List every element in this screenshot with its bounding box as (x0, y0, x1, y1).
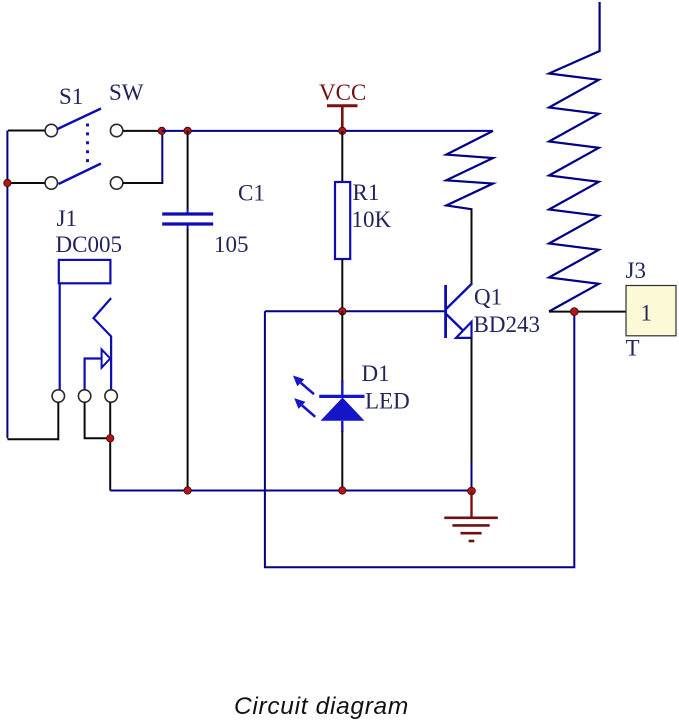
switch S1 gang link dotted line (86, 124, 89, 169)
svg-text:LED: LED (365, 389, 410, 414)
inductor L2 secondary coil zigzag (549, 2, 600, 312)
connector J1 pin2 circle (78, 390, 90, 402)
wire: base wire from loop to Q1 (265, 310, 445, 312)
wire: LED bottom lead (341, 431, 343, 491)
switch S1 lower lever (59, 164, 102, 185)
LED D1 top pin stub (341, 380, 343, 396)
svg-text:105: 105 (214, 232, 249, 257)
connector J1 pin2 lead with arrow stem (85, 359, 101, 390)
svg-text:R1: R1 (353, 180, 380, 205)
wire: SW upper-right terminal to junction (123, 130, 163, 132)
svg-text:J1: J1 (57, 206, 77, 231)
ground stem (470, 491, 472, 518)
wire: coil to Q1 collector (471, 208, 473, 284)
transistor Q1 collector diagonal (446, 284, 472, 310)
svg-text:T: T (626, 336, 640, 361)
svg-text:BD243: BD243 (474, 312, 540, 337)
svg-text:C1: C1 (238, 181, 265, 206)
svg-text:SW: SW (109, 80, 144, 105)
wire: Q1 emitter down (471, 338, 473, 462)
ground bar 3 (461, 532, 482, 535)
connector J1 pin3 circle (105, 390, 117, 402)
power VCC stem (341, 106, 344, 131)
LED D1 emission arrow lower (294, 398, 315, 417)
ground bar 1 (444, 516, 498, 519)
LED D1 emission arrow upper (293, 376, 314, 395)
node: junction bottom / emitter / ground (468, 487, 476, 495)
LED D1 triangle (321, 398, 365, 421)
wire: left rail vertical (6, 131, 8, 439)
svg-text:D1: D1 (362, 361, 390, 386)
wire: coil bottom to J3 (549, 311, 626, 313)
connector J1 pin3 switch lever (94, 298, 112, 390)
switch S1 terminal circle upper-right (110, 124, 122, 136)
svg-text:10K: 10K (352, 207, 392, 232)
switch S1 terminal circle lower-right (110, 177, 122, 189)
node: junction SW outputs (158, 127, 165, 134)
capacitor C1 bottom plate (162, 222, 213, 225)
node: junction coil / J3 / loop (570, 308, 578, 316)
wire: top power rail (162, 130, 493, 132)
transistor Q1 emitter arrow (456, 322, 472, 338)
connector J1 pin1 circle (52, 390, 64, 402)
ground bar 2 (452, 524, 489, 527)
wire: J1 pin1 stub (57, 402, 59, 440)
wire: emitter to ground junction (471, 462, 473, 491)
svg-text:VCC: VCC (319, 80, 366, 105)
power VCC bar symbol (327, 104, 358, 107)
svg-text:1: 1 (641, 301, 653, 326)
transistor Q1 base bar (444, 285, 447, 338)
node: junction VCC / rail (339, 127, 346, 134)
svg-text:DC005: DC005 (56, 232, 122, 257)
switch S1 upper lever (58, 109, 102, 130)
wire: R1 top lead (341, 131, 343, 182)
capacitor C1 top pin stub (187, 208, 189, 213)
switch S1 terminal circle upper-left (45, 124, 57, 136)
transistor Q1 emitter diagonal (446, 314, 464, 332)
connector J1 pin2 arrow head (102, 349, 111, 367)
wire: R1 bottom lead (341, 259, 343, 311)
switch S1 terminal circle lower-left (45, 177, 57, 189)
wire: left rail bottom horizontal to J1 pin1 (7, 438, 58, 440)
node: junction rail / C1 (184, 127, 191, 134)
LED D1 bottom pin stub (341, 421, 343, 432)
node: junction J1 pins (107, 435, 114, 442)
resistor R1 body (335, 182, 350, 259)
capacitor C1 top plate (162, 212, 213, 215)
wire: SW lower-right terminal horizontal (123, 182, 163, 184)
wire: SW lower-right vertical up to rail (161, 130, 163, 183)
wire: C1 bottom lead (187, 229, 189, 491)
connector J1 pin1 lead (59, 283, 61, 389)
node: junction bottom / LED (339, 487, 346, 494)
ground bar 4 (469, 540, 475, 543)
connector J1 body rectangle (59, 260, 111, 283)
connector J3 box (626, 286, 676, 336)
node: junction bottom / C1 (184, 487, 191, 494)
svg-text:J3: J3 (626, 258, 646, 283)
wire: feedback loop left vertical (265, 311, 574, 567)
wire: S1 lower-left terminal to rail (8, 182, 45, 184)
capacitor C1 bottom pin stub (187, 225, 189, 230)
svg-text:S1: S1 (59, 84, 83, 109)
node: junction left rail / lower switch wire (4, 179, 11, 186)
wire: bottom return wire (110, 490, 471, 492)
wire: S1 upper-left terminal to rail (8, 130, 45, 132)
wire: J1 pin2 stub down and right (85, 402, 111, 438)
svg-text:Q1: Q1 (474, 285, 502, 310)
wire: C1 top lead (187, 131, 189, 210)
wire: LED top lead (341, 311, 343, 381)
wire: J1 pin3 stub down (109, 402, 111, 490)
inductor L1 primary coil zigzag (446, 131, 493, 209)
svg-text:Circuit diagram: Circuit diagram (234, 693, 409, 720)
node: junction base wire / R1-LED (339, 308, 346, 315)
LED D1 cathode bar (319, 395, 364, 398)
